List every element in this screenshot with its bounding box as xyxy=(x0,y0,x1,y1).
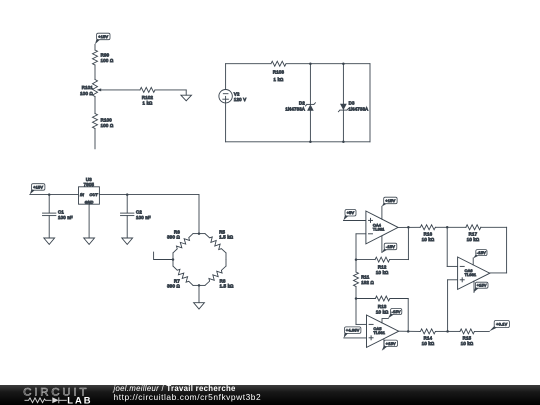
svg-text:IN: IN xyxy=(80,193,84,197)
svg-text:10 kΩ: 10 kΩ xyxy=(376,270,389,275)
svg-text:1 kΩ: 1 kΩ xyxy=(143,100,153,105)
svg-text:R103: R103 xyxy=(273,70,285,75)
svg-text:10 kΩ: 10 kΩ xyxy=(461,341,474,346)
svg-text:120 V: 120 V xyxy=(234,97,246,102)
svg-text:R17: R17 xyxy=(469,231,478,236)
svg-text:1 kΩ: 1 kΩ xyxy=(274,77,284,82)
svg-text:1.5 kΩ: 1.5 kΩ xyxy=(219,235,234,240)
svg-text:7805: 7805 xyxy=(84,182,95,187)
svg-text:C2: C2 xyxy=(136,210,142,215)
svg-text:+4.98V: +4.98V xyxy=(346,329,360,333)
svg-text:-15V: -15V xyxy=(477,251,486,255)
svg-text:100 Ω: 100 Ω xyxy=(101,58,114,63)
svg-text:TL081: TL081 xyxy=(374,331,386,335)
svg-text:100 Ω: 100 Ω xyxy=(80,91,93,96)
svg-text:R99: R99 xyxy=(101,53,110,58)
svg-text:R11: R11 xyxy=(361,275,370,280)
svg-text:+15V: +15V xyxy=(385,199,395,203)
svg-text:R12: R12 xyxy=(378,264,387,269)
svg-text:390 Ω: 390 Ω xyxy=(167,284,180,289)
svg-text:+15V: +15V xyxy=(98,35,108,39)
svg-text:R102: R102 xyxy=(142,95,154,100)
svg-text:V2: V2 xyxy=(234,91,240,96)
svg-text:10 kΩ: 10 kΩ xyxy=(376,309,389,314)
svg-text:R16: R16 xyxy=(424,231,433,236)
svg-text:+0.1V: +0.1V xyxy=(496,323,507,327)
svg-text:1N4733A: 1N4733A xyxy=(349,106,369,111)
svg-text:+15V: +15V xyxy=(477,284,487,288)
svg-text:1.5 kΩ: 1.5 kΩ xyxy=(220,284,235,289)
svg-text:390 Ω: 390 Ω xyxy=(167,235,180,240)
svg-text:100 Ω: 100 Ω xyxy=(101,123,114,128)
svg-text:+5V: +5V xyxy=(347,211,355,215)
svg-text:C1: C1 xyxy=(58,210,64,215)
svg-text:OUT: OUT xyxy=(90,193,99,197)
svg-text:100 nF: 100 nF xyxy=(58,215,73,220)
svg-text:192 Ω: 192 Ω xyxy=(361,280,374,285)
svg-text:10 kΩ: 10 kΩ xyxy=(422,237,435,242)
svg-text:D3: D3 xyxy=(349,101,355,106)
svg-text:10 kΩ: 10 kΩ xyxy=(422,341,435,346)
svg-text:R15: R15 xyxy=(463,336,472,341)
svg-text:-15V: -15V xyxy=(386,245,395,249)
svg-text:D2: D2 xyxy=(299,101,305,106)
svg-text:http://circuitlab.com/cr5nfkvp: http://circuitlab.com/cr5nfkvpwt3b2 xyxy=(114,392,262,402)
svg-text:100 nF: 100 nF xyxy=(136,215,151,220)
svg-text:1N4733A: 1N4733A xyxy=(285,106,305,111)
svg-text:-15V: -15V xyxy=(392,310,401,314)
svg-text:R101: R101 xyxy=(82,85,94,90)
svg-text:LAB: LAB xyxy=(67,394,92,405)
svg-text:R100: R100 xyxy=(101,118,113,123)
svg-text:TL081: TL081 xyxy=(373,227,385,231)
svg-text:10 kΩ: 10 kΩ xyxy=(467,237,480,242)
svg-text:TL081: TL081 xyxy=(465,273,477,277)
svg-text:+15V: +15V xyxy=(33,185,43,189)
svg-text:R14: R14 xyxy=(424,336,433,341)
svg-text:+15V: +15V xyxy=(386,342,396,346)
